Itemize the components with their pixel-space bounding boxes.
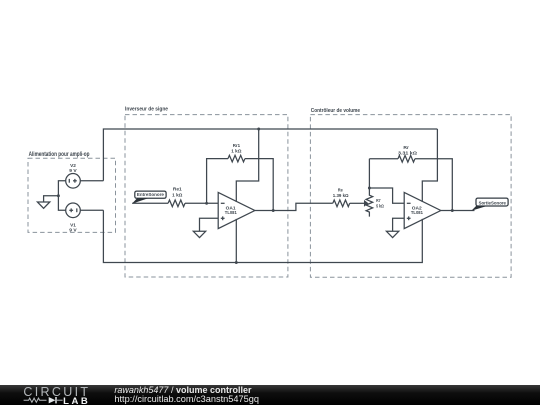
wire: Re1 to OA1 inverting input [185, 202, 218, 204]
svg-text:9 V: 9 V [69, 227, 76, 232]
wire: pot top node to Rr and OA2 inverting input [369, 159, 404, 204]
svg-text:TL081: TL081 [225, 210, 238, 215]
wire: Rr right to OA2 output [415, 159, 452, 211]
wire: OA1 V+ pin route to top rail [236, 129, 258, 202]
footer url text [114, 395, 259, 404]
svg-text:Alimentation pour ampli-op: Alimentation pour ampli-op [29, 152, 90, 158]
ground power supply [37, 202, 49, 208]
wire: OA2 output to SortieSonore [441, 210, 475, 212]
voltage source V2 [66, 174, 81, 189]
wire: bottom negative rail V1- to OA2 V- pin [103, 210, 422, 262]
wire: OA1 non-inverting input to ground [200, 218, 219, 231]
svg-text:9 V: 9 V [69, 168, 76, 173]
svg-text:Rr1: Rr1 [233, 143, 241, 148]
svg-text:R7: R7 [376, 198, 381, 203]
wire: Rr1 right to OA1 output [245, 159, 273, 211]
junction: R7 top / OA2 inverting node [368, 187, 371, 190]
dashed box: Controleur de volume [310, 115, 511, 278]
footer title text [114, 385, 251, 395]
wire: V2 right terminal to rail [80, 180, 103, 182]
wire: V1 right terminal to rail [80, 209, 103, 211]
wire: EntreSonore input to Re1 [132, 202, 168, 204]
CircuitLab logo [0, 385, 110, 405]
junction: bottom rail / OA1 V- [235, 261, 238, 264]
resistor Re1 [168, 200, 185, 207]
wire: common leg to ground [44, 196, 59, 202]
wire: OA2 V+ pin route from top rail [422, 129, 437, 202]
svg-text:Re: Re [338, 188, 343, 193]
wire: Re to potentiometer wiper [350, 202, 365, 204]
svg-text:Rr: Rr [403, 145, 409, 150]
junction: OA1 inverting input node [205, 202, 208, 205]
resistor Rr [369, 158, 398, 160]
svg-text:1.39 kΩ: 1.39 kΩ [333, 193, 349, 198]
junction: top rail / OA1 V+ [257, 128, 260, 131]
svg-text:EntreSonore: EntreSonore [137, 192, 165, 197]
potentiometer R7 [366, 188, 373, 217]
svg-text:TL081: TL081 [411, 210, 424, 215]
ground OA1 [193, 231, 205, 237]
op-amp OA1 [218, 192, 255, 228]
wire: OA2 non-inverting input to ground [393, 218, 405, 231]
svg-text:5 kΩ: 5 kΩ [376, 204, 384, 209]
resistor Re [333, 200, 350, 207]
flag EntreSonore [135, 191, 166, 198]
svg-text:LAB: LAB [63, 396, 88, 405]
wire: feedback node up to Rr1 [207, 159, 228, 204]
svg-text:Inverseur de signe: Inverseur de signe [125, 107, 168, 113]
ground OA2 [386, 231, 398, 237]
svg-text:Re1: Re1 [173, 187, 182, 192]
wire: top positive rail V2+ to OA2 V+ drop [103, 129, 437, 181]
junction: OA2 output node [451, 209, 454, 212]
wire: V2- to V1+ common leg [58, 181, 65, 211]
svg-text:1 kΩ: 1 kΩ [231, 149, 242, 154]
svg-text:SortieSonore: SortieSonore [479, 200, 507, 205]
wire: OA1 output to Re [255, 203, 333, 210]
resistor Rr1 [228, 155, 245, 162]
svg-text:3.31 kΩ: 3.31 kΩ [398, 150, 417, 155]
wiper arrow R7 [365, 201, 368, 205]
junction: supply midpoint node [57, 194, 60, 197]
voltage source V1 [66, 203, 81, 218]
junction: OA1 output node [272, 209, 275, 212]
wire: OA1 V- pin drop to bottom rail [235, 219, 237, 263]
op-amp OA2 [404, 192, 441, 228]
svg-text:1 kΩ: 1 kΩ [172, 192, 183, 197]
svg-text:Contrôleur de volume: Contrôleur de volume [311, 108, 360, 114]
flag SortieSonore [476, 198, 508, 206]
dashed box: Alimentation pour ampli-op [28, 158, 116, 232]
dashed box: Inverseur de signe [125, 115, 288, 277]
